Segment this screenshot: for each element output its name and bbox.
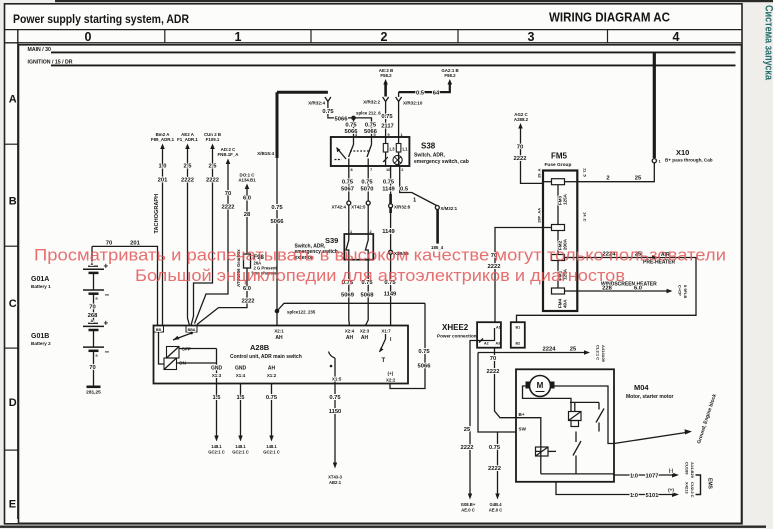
svg-text:F89_ADR.1: F89_ADR.1 (151, 137, 175, 142)
svg-text:5066: 5066 (271, 219, 285, 225)
wire FM1 air pre-heater 2224/25 (517, 258, 697, 323)
wire XHEE2 A3 down 70/2222 to M04 B+ (495, 348, 517, 418)
column number row bottom line (5, 42, 743, 44)
row divider C/D (5, 347, 18, 349)
svg-text:A1: A1 (496, 326, 501, 330)
svg-text:splce122_235: splce122_235 (287, 310, 316, 315)
svg-text:M: M (537, 381, 544, 390)
svg-text:FM5: FM5 (551, 152, 568, 161)
svg-text:1.5: 1.5 (212, 395, 221, 401)
svg-text:BBA: BBA (188, 328, 196, 332)
wire 2224/25 output CL3:1 (478, 352, 586, 354)
S38 lamp L1 (398, 137, 400, 144)
row divider D/E (5, 449, 18, 451)
svg-text:3: 3 (528, 30, 535, 44)
battery G01B (83, 319, 110, 358)
svg-text:2222: 2222 (487, 369, 500, 375)
svg-text:Большой энциклопедии для автоэ: Большой энциклопедии для автоэлектриков … (135, 266, 625, 285)
svg-text:1.5: 1.5 (236, 395, 245, 401)
contact 1 (598, 402, 600, 409)
wire X/B15 thin continuation (276, 158, 278, 326)
junction splice 22_235 (275, 309, 280, 314)
node AD:2C FNB.1F_A label (218, 147, 240, 164)
svg-text:TACHOGRAPH: TACHOGRAPH (154, 194, 160, 234)
internal B+ rail (516, 418, 541, 452)
pin label GND X1:4 (235, 366, 247, 379)
wire S38 pin10 0.75/1149 (390, 166, 392, 194)
svg-text:5068: 5068 (361, 293, 375, 299)
svg-text:0.75: 0.75 (381, 114, 393, 120)
svg-text:40A: 40A (563, 299, 568, 308)
pin label GND X1:3 (211, 366, 223, 379)
svg-text:CL3:1 C: CL3:1 C (596, 345, 601, 360)
internal switch X1:5 (334, 358, 336, 384)
svg-text:5: 5 (374, 133, 376, 137)
svg-text:XT42:5: XT42:5 (351, 205, 366, 210)
svg-text:F109.1: F109.1 (206, 137, 220, 142)
svg-text:Control unit, ADR main switch: Control unit, ADR main switch (230, 354, 302, 360)
svg-text:X/M32:1: X/M32:1 (441, 206, 458, 211)
svg-text:2: 2 (401, 168, 403, 172)
relay coil 2 (536, 447, 549, 456)
svg-text:X1:4: X1:4 (236, 373, 246, 378)
svg-text:2222: 2222 (461, 445, 474, 451)
node CUn2B F109.1 label (204, 132, 221, 149)
svg-text:Система запуска: Система запуска (763, 5, 773, 81)
svg-text:0.75: 0.75 (342, 180, 354, 186)
wire 70-201 battery to tachograph (92, 246, 158, 325)
battery G01A (83, 262, 110, 301)
node DO:1C A134.B1 label (238, 173, 256, 190)
wire 0.5-64 (399, 84, 450, 92)
svg-text:5101: 5101 (646, 493, 660, 499)
S38 contact pin4-8 (353, 137, 355, 145)
svg-text:L1: L1 (403, 147, 409, 152)
svg-text:1.0: 1.0 (630, 493, 638, 499)
svg-text:D: D (9, 397, 17, 409)
switch S39 box (344, 234, 373, 260)
ground 281,25 (87, 385, 101, 388)
svg-text:14_C: 14_C (583, 212, 588, 222)
svg-text:A14.B29: A14.B29 (690, 462, 695, 479)
S38 pin numbers (351, 133, 404, 172)
svg-text:2117: 2117 (381, 124, 394, 130)
svg-text:AE.0 C: AE.0 C (489, 508, 503, 513)
FM5 pin labels top (537, 168, 588, 178)
net ATO1056 Gearbox vertical label (236, 249, 241, 287)
svg-text:9: 9 (388, 133, 390, 137)
svg-text:(+): (+) (668, 488, 674, 493)
svg-text:1149: 1149 (384, 292, 397, 298)
svg-text:0.75: 0.75 (365, 123, 377, 129)
svg-text:0.75: 0.75 (418, 349, 430, 355)
svg-text:B2: B2 (516, 342, 521, 346)
svg-text:G08.B+: G08.B+ (461, 502, 476, 507)
connector pin 1 X10 (652, 159, 656, 163)
scan edge bottom (0, 526, 766, 528)
svg-text:AH: AH (275, 335, 283, 341)
connector X/R32:10 (396, 97, 402, 102)
svg-text:0.75: 0.75 (361, 180, 373, 186)
svg-text:25: 25 (464, 427, 471, 433)
XHEE2 box A (477, 322, 501, 348)
bus wire MAIN/30 (51, 51, 736, 53)
svg-text:+: + (104, 319, 109, 328)
svg-text:2222: 2222 (181, 178, 194, 184)
svg-text:X4213: X4213 (685, 482, 690, 494)
label X10 B+ pass through Cab (665, 148, 713, 163)
wire S38 pin2 0.5 stub X/M32:1 (400, 166, 437, 206)
svg-text:1077: 1077 (646, 474, 659, 480)
svg-text:XHEE2: XHEE2 (442, 323, 469, 332)
relay coil OFF (167, 347, 180, 359)
wire XHEE2 A2 stub to left (470, 341, 481, 496)
svg-text:G4B.4: G4B.4 (489, 502, 502, 507)
control unit A28B box (154, 326, 409, 384)
wire tachograph 1.0/201 (162, 148, 164, 326)
pin BB (154, 326, 164, 333)
svg-text:70: 70 (490, 356, 496, 362)
svg-text:5066: 5066 (364, 129, 378, 135)
svg-text:0.75: 0.75 (329, 395, 341, 401)
relay coil ON (164, 358, 177, 370)
S38 contact pin5-7 (371, 137, 373, 145)
wire 70 to ground (93, 354, 95, 386)
contact 2 (575, 432, 577, 443)
svg-text:1.0: 1.0 (630, 474, 638, 480)
motor wire left (523, 386, 572, 412)
svg-text:228: 228 (602, 286, 612, 292)
node AG2C A288.2 (514, 112, 529, 129)
row letter column line (17, 30, 19, 519)
wire S39 pin down 0.75/5069 (348, 260, 351, 326)
svg-text:8 9FLB: 8 9FLB (683, 285, 688, 298)
svg-text:X1:3: X1:3 (212, 373, 222, 378)
wire FM4 windscreen heater 228/6.0 (577, 290, 668, 292)
wire X10 to FM5 2/25 (577, 163, 654, 182)
svg-text:X2:1: X2:1 (274, 329, 284, 334)
svg-text:CU189: CU189 (685, 462, 690, 475)
svg-text:2222: 2222 (206, 178, 219, 184)
pin label X2:1 AH (274, 329, 284, 342)
svg-text:A: A (9, 94, 17, 106)
wire X2:2 to right 0.75/5066 (390, 303, 425, 388)
relay coil 1 (569, 412, 582, 421)
svg-text:G01B: G01B (31, 333, 49, 340)
S38 lamp L3 (385, 137, 387, 144)
svg-text:2.5: 2.5 (208, 164, 217, 170)
svg-text:emergency switch, cab: emergency switch, cab (414, 159, 469, 165)
fuse F98 (244, 254, 251, 268)
svg-text:A28B: A28B (250, 343, 270, 352)
svg-text:T: T (382, 358, 386, 364)
pin BBA (186, 326, 197, 333)
svg-text:6.0: 6.0 (243, 286, 251, 292)
svg-text:A3: A3 (496, 342, 501, 346)
svg-text:CU2:2 C: CU2:2 C (690, 482, 695, 498)
svg-text:0.75: 0.75 (266, 395, 278, 401)
node AE:2B F58.2 (379, 68, 393, 85)
svg-text:AB2:1: AB2:1 (329, 480, 342, 485)
S39 contact 1 (346, 234, 349, 260)
svg-text:2: 2 (606, 176, 609, 182)
svg-text:6.0: 6.0 (634, 286, 642, 292)
svg-text:A414A09: A414A09 (601, 345, 606, 363)
wire coil ON to gnd rail (177, 362, 217, 364)
svg-text:Switch, ADR,: Switch, ADR, (414, 153, 446, 159)
connector X/R32:4 (325, 97, 331, 102)
svg-text:5070: 5070 (361, 187, 374, 193)
svg-text:EMS: EMS (707, 478, 713, 490)
svg-text:X2:2: X2:2 (386, 378, 396, 383)
wire 1.0/5101 EMS plus (556, 482, 673, 495)
wire below F98 6.0/2222 (197, 268, 247, 325)
svg-text:C: C (9, 298, 17, 310)
svg-text:AH: AH (346, 335, 354, 341)
svg-text:B1: B1 (516, 326, 521, 330)
column tick 3/4 (607, 30, 609, 43)
S38 manual actuator arrow (337, 148, 347, 160)
svg-text:1: 1 (235, 30, 242, 44)
svg-text:E: E (9, 499, 16, 511)
motor symbol (530, 376, 551, 397)
fuse FM1 125A (552, 255, 565, 261)
svg-text:201: 201 (158, 178, 168, 184)
switch S38 box (331, 137, 410, 166)
svg-text:5066: 5066 (418, 364, 432, 370)
connector X/R32:2 (383, 97, 389, 102)
svg-text:7: 7 (370, 168, 372, 172)
svg-text:GC2:1 C: GC2:1 C (232, 450, 249, 455)
svg-text:6.0: 6.0 (243, 196, 251, 202)
svg-text:5067: 5067 (341, 187, 354, 193)
EMS bracket (696, 475, 701, 495)
label G01B Battery 2 (31, 333, 51, 346)
svg-text:AE.0 C: AE.0 C (461, 508, 475, 513)
svg-text:0: 0 (85, 30, 92, 44)
svg-text:4: 4 (673, 30, 680, 44)
svg-text:GND: GND (235, 366, 247, 372)
svg-text:2222: 2222 (242, 299, 255, 305)
svg-text:X2:4: X2:4 (345, 329, 355, 334)
svg-text:C+CP: C+CP (678, 285, 683, 296)
svg-text:70: 70 (225, 191, 231, 197)
wire F58 drop thick (384, 84, 387, 97)
svg-text:F58.2: F58.2 (380, 73, 392, 78)
motor wire right to ground pin (555, 386, 615, 444)
wire 2.5/2222 second (191, 148, 213, 326)
svg-text:5069: 5069 (341, 293, 355, 299)
wire S38 pin8 0.75/5067 (348, 166, 350, 234)
svg-text:70: 70 (89, 365, 95, 371)
svg-text:S39: S39 (325, 236, 338, 245)
svg-text:A134.B1: A134.B1 (238, 178, 256, 183)
node Bm2A F89_ADR.1 label (151, 132, 175, 149)
wire AH X1:2 down 0.75 (271, 384, 273, 438)
bus X/B15 thick wire (277, 91, 328, 94)
column tick 2/3 (457, 30, 459, 43)
wire splice to pin5 (354, 118, 372, 137)
wire gnd X1:4 down 1.5 (240, 384, 242, 438)
XHEE2 box B (511, 322, 525, 348)
S38 indicator lamp circle (393, 155, 402, 164)
ground wire and arrow (614, 433, 686, 444)
power connection XHEE2 (437, 323, 477, 339)
wire BB pin to coils (159, 332, 165, 364)
row divider A/B (5, 143, 18, 145)
svg-text:25: 25 (570, 347, 577, 353)
svg-text:F98.2: F98.2 (444, 73, 456, 78)
svg-text:Power supply starting system,: Power supply starting system, ADR (13, 12, 189, 26)
svg-text:0.75: 0.75 (383, 180, 395, 186)
svg-text:S38: S38 (421, 142, 436, 151)
svg-text:AH: AH (361, 335, 369, 341)
svg-text:B: B (9, 196, 17, 208)
label TACHOGRAPH (154, 194, 160, 234)
wire battery G01A positive (91, 246, 93, 266)
svg-text:2224: 2224 (543, 347, 557, 353)
svg-text:Просматривать и распечатывать: Просматривать и распечатывать в высоком … (34, 246, 726, 265)
svg-text:1: 1 (350, 230, 352, 234)
motor M04 box (516, 369, 614, 482)
fuse FM3 125A (552, 179, 565, 185)
wire 2.5/2222 (188, 148, 190, 326)
svg-text:0.75: 0.75 (322, 109, 334, 115)
svg-text:MAIN / 30: MAIN / 30 (28, 47, 51, 53)
svg-text:0.5: 0.5 (400, 187, 409, 193)
svg-text:2: 2 (370, 230, 372, 234)
svg-text:5066: 5066 (335, 116, 349, 122)
svg-text:281,25: 281,25 (86, 390, 101, 396)
svg-text:A288.2: A288.2 (514, 117, 529, 122)
pin label AH X1:2 (267, 366, 277, 379)
svg-text:Motor, starter motor: Motor, starter motor (626, 394, 674, 400)
wire 5066 to splice (328, 116, 354, 118)
svg-text:G01A: G01A (31, 276, 49, 283)
wire SW feed (478, 353, 516, 433)
svg-text:0.75: 0.75 (489, 445, 501, 451)
pin SW (519, 427, 527, 432)
S39 contact 2 (365, 234, 368, 260)
wire 70/268 between batteries (93, 297, 95, 323)
svg-text:148.1: 148.1 (235, 444, 246, 449)
svg-text:(+): (+) (388, 371, 394, 376)
XHEE2 internal link (481, 328, 495, 341)
svg-text:−: − (105, 291, 110, 300)
S39 pin numbers (350, 230, 372, 234)
column tick 0/1 (164, 30, 166, 43)
svg-text:X/B15:4: X/B15:4 (257, 151, 274, 156)
svg-text:−: − (105, 348, 110, 357)
wire S39 pin down 0.75/5068 (366, 260, 369, 326)
svg-text:X1:2: X1:2 (267, 373, 277, 378)
svg-text:1149: 1149 (382, 229, 395, 235)
fuse FM2 200A (552, 225, 565, 231)
svg-text:X2:3: X2:3 (360, 329, 370, 334)
svg-text:A2: A2 (484, 342, 489, 346)
svg-text:X/R32:8: X/R32:8 (394, 205, 411, 210)
wire 70/2222 to FM5 (521, 129, 544, 184)
svg-text:8: 8 (351, 168, 353, 172)
svg-text:splce 212_6: splce 212_6 (356, 111, 381, 116)
svg-text:GC2:1 C: GC2:1 C (263, 450, 280, 455)
svg-text:X/R32:10: X/R32:10 (403, 101, 423, 106)
wire 70/2222 (195, 163, 229, 324)
pin B+ (519, 412, 525, 417)
svg-text:2222: 2222 (488, 466, 501, 472)
wire gnd X1:3 down 1.5 (216, 384, 218, 438)
svg-text:AH: AH (268, 366, 276, 372)
main switch lever (173, 333, 192, 340)
svg-text:X1:7: X1:7 (381, 329, 391, 334)
svg-text:B+: B+ (519, 412, 525, 417)
svg-text:2.5: 2.5 (183, 164, 192, 170)
fuse group FM5 box (543, 171, 577, 312)
wire coil OFF to gnd rail (179, 348, 217, 350)
pin label X2:3 AH (360, 329, 370, 342)
svg-text:GND: GND (211, 366, 223, 372)
svg-text:0.75: 0.75 (271, 205, 283, 211)
svg-text:148.1: 148.1 (211, 444, 222, 449)
wire S38 pin7 0.75/5070 (367, 166, 369, 234)
wire pin4 0.75/5066 (353, 118, 355, 137)
FM5 internal rail (557, 182, 559, 291)
svg-text:B+ pass through, Cab: B+ pass through, Cab (665, 158, 713, 163)
bus X10 B+ thick drop (653, 52, 656, 158)
svg-text:64: 64 (433, 91, 440, 97)
svg-text:2222: 2222 (222, 205, 235, 211)
svg-text:BB: BB (156, 328, 162, 332)
svg-text:0.75: 0.75 (345, 123, 357, 129)
svg-text:125A: 125A (563, 193, 568, 205)
pin label X1:7 and internal switch (381, 329, 392, 344)
svg-text:2222: 2222 (514, 156, 527, 162)
svg-text:X10: X10 (676, 148, 689, 157)
wire gnd rail (216, 349, 218, 384)
svg-text:XT43-3: XT43-3 (328, 475, 342, 480)
row divider B/C (5, 245, 18, 247)
svg-text:Power connection: Power connection (437, 334, 477, 339)
svg-text:19_A: 19_A (537, 168, 542, 178)
svg-text:M04: M04 (634, 383, 649, 392)
svg-text:1: 1 (401, 133, 403, 137)
node AE2A F1_ADR.1 label (177, 132, 198, 149)
S38 coupling dashes (350, 150, 369, 152)
svg-text:L3: L3 (390, 147, 396, 152)
svg-text:XT42:4: XT42:4 (332, 205, 347, 210)
svg-text:A: A (91, 319, 94, 323)
svg-text:FNB.1F_A: FNB.1F_A (218, 152, 240, 157)
svg-text:1149: 1149 (382, 187, 395, 193)
bus wire IGNITION/15/DR (51, 64, 736, 66)
svg-text:X1:5: X1:5 (332, 377, 342, 382)
svg-text:10: 10 (386, 168, 390, 172)
svg-text:WIRING DIAGRAM AC: WIRING DIAGRAM AC (549, 11, 670, 25)
svg-text:1.0: 1.0 (158, 164, 166, 170)
fuse FM4 40A (552, 288, 565, 294)
svg-text:(-): (-) (669, 468, 674, 473)
svg-text:19P_AA: 19P_AA (537, 208, 542, 223)
splice 212_6 dot (351, 116, 356, 121)
internal output rail (541, 473, 614, 475)
svg-text:70: 70 (517, 145, 523, 151)
svg-text:1150: 1150 (329, 409, 342, 415)
scan edge top (55, 0, 773, 2)
svg-text:0.5: 0.5 (416, 91, 425, 97)
wire 0.75/2222 to G4B.4 (497, 432, 499, 495)
svg-text:25: 25 (635, 176, 642, 182)
label G01A Battery 1 (31, 276, 51, 289)
